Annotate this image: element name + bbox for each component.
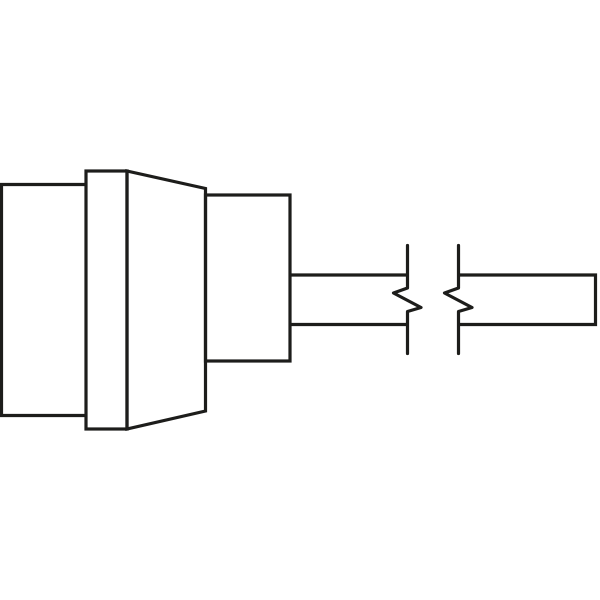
shaft left segment top edge (290, 273, 408, 276)
shaft right segment (459, 275, 596, 325)
tapered bushing (127, 171, 206, 429)
break line 2 (445, 246, 473, 354)
flange (86, 171, 127, 429)
shaft left segment bottom edge (290, 323, 408, 326)
break line 1 (394, 246, 422, 354)
cylinder face (206, 195, 291, 361)
body rear block (2, 185, 87, 416)
